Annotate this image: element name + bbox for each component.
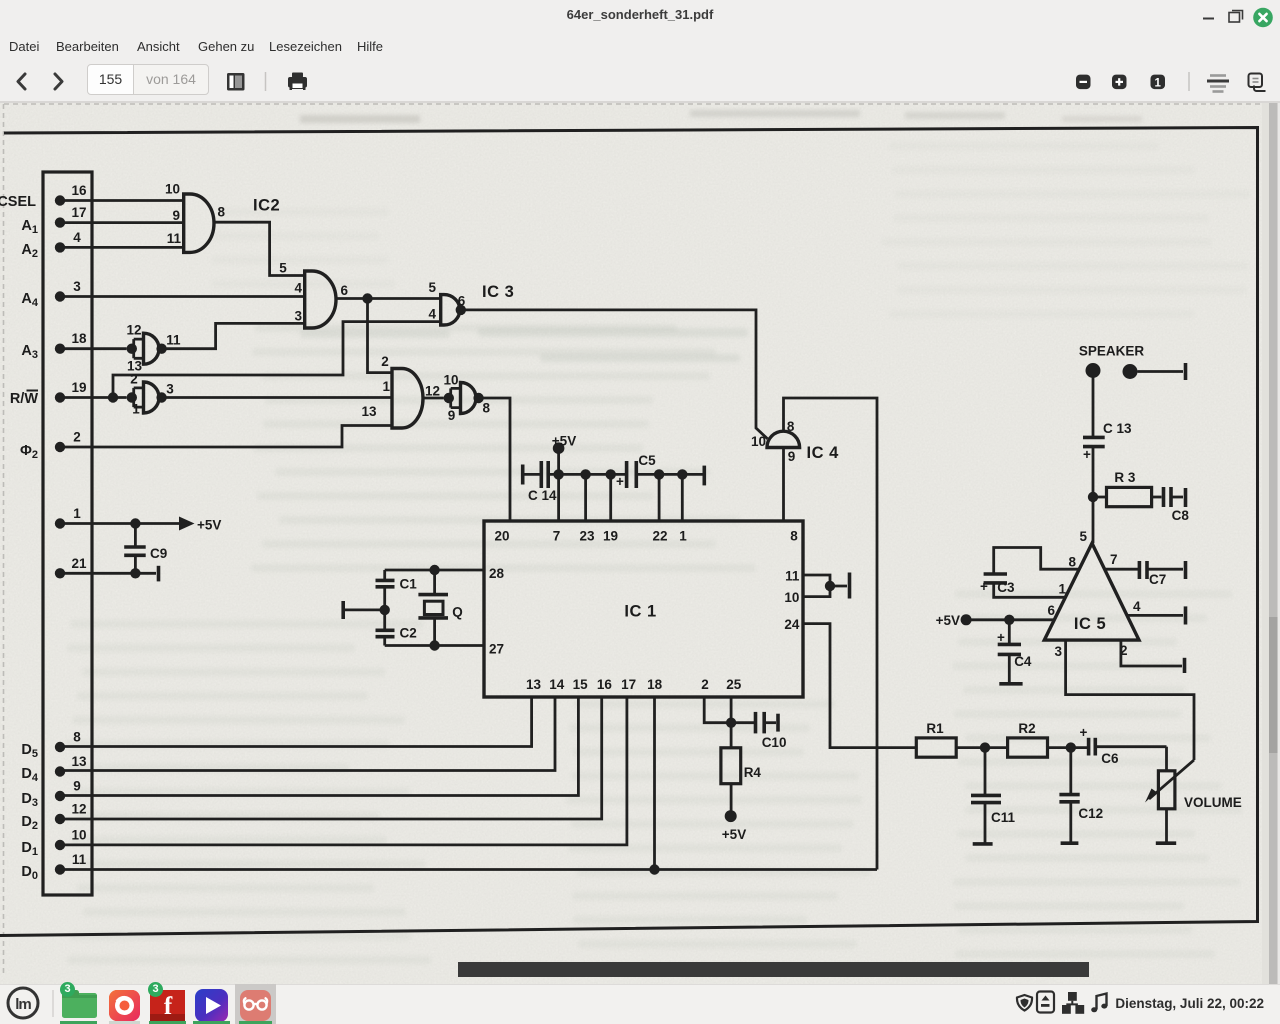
IC IC1 (28-pin sound chip) (484, 521, 803, 697)
AND gate IC3b (pins 2,1,13 -> 12) (361, 354, 440, 428)
svg-text:16: 16 (71, 183, 87, 198)
svg-text:11: 11 (72, 852, 87, 867)
terminal C8 (1184, 488, 1188, 507)
wire speaker A to C13 (1092, 377, 1095, 437)
svg-text:2: 2 (130, 372, 138, 387)
svg-text:9: 9 (73, 779, 81, 794)
firefox icon (109, 990, 140, 1021)
svg-text:C 13: C 13 (1103, 421, 1132, 436)
wire inverter IC4a pin 3 to gate IC3b pin 1 (162, 396, 392, 399)
svg-text:8: 8 (73, 730, 81, 745)
svg-text:5: 5 (279, 261, 287, 276)
node D0 (connector pin 11) (21, 852, 86, 882)
wire D2 to IC1 (60, 697, 602, 819)
svg-text:+: + (997, 630, 1005, 645)
svg-text:+5V: +5V (722, 827, 746, 842)
svg-text:7: 7 (1110, 552, 1118, 567)
gate IC4 (pins 10,9 -> 8) (751, 419, 839, 464)
power node +5V (R4) (722, 810, 746, 842)
terminal speaker B (1184, 363, 1188, 380)
capacitor C6 (1080, 725, 1119, 766)
svg-text:15: 15 (573, 677, 589, 692)
svg-text:IC 4: IC 4 (807, 444, 840, 462)
svg-text:28: 28 (489, 566, 505, 581)
wire IC5 pin 2 to terminal (1121, 640, 1182, 666)
resistor R3 (1093, 470, 1152, 507)
svg-text:C 14: C 14 (528, 488, 557, 503)
wire R1 to R2 (956, 746, 1007, 749)
node speaker terminal B (1123, 364, 1138, 379)
capacitor C5 (616, 453, 656, 489)
svg-text:12: 12 (126, 323, 141, 338)
capacitor C2 (376, 587, 417, 646)
wire IC1 pin 2 to pin 25 net (704, 697, 731, 723)
svg-text:C5: C5 (638, 453, 656, 468)
svg-text:1: 1 (132, 402, 140, 417)
svg-text:1: 1 (1058, 582, 1066, 597)
svg-text:19: 19 (71, 380, 86, 395)
wire R/W to inverter IC4a input (60, 396, 127, 399)
window title bar (0, 0, 1280, 30)
wire R2 to C6 (1048, 746, 1088, 749)
wire A3 to inverter IC3a input (60, 347, 127, 350)
junction rail/pin7 (553, 469, 563, 479)
svg-text:C4: C4 (1014, 654, 1032, 669)
junction rail/pin1 (677, 469, 687, 479)
junction pin18/D0 (649, 864, 659, 874)
svg-text:25: 25 (726, 677, 742, 692)
wire IC1 pin 27 to oscillator loop (385, 644, 484, 647)
bottom taskbar (0, 984, 1280, 1024)
svg-text:+: + (616, 474, 624, 489)
svg-text:3: 3 (1054, 644, 1062, 659)
svg-text:2: 2 (701, 677, 709, 692)
wire D0 net (to IC4 loop) (60, 868, 877, 871)
AND gate IC2 (pins 10,9,11 -> 8) (165, 182, 280, 253)
wire gate IC3b pin 12 to inverter IC4b input (423, 397, 444, 400)
svg-text:lm: lm (15, 996, 31, 1013)
svg-text:10: 10 (443, 372, 458, 387)
potentiometer VOLUME (1145, 747, 1242, 844)
svg-text:C7: C7 (1149, 572, 1166, 587)
svg-text:11: 11 (166, 333, 181, 348)
svg-text:6: 6 (341, 283, 349, 298)
terminal C7 (1184, 561, 1188, 579)
junction on net 6 (362, 293, 372, 303)
red f icon (150, 990, 185, 1021)
svg-text:+5V: +5V (936, 613, 960, 628)
node D3 (connector pin 9) (21, 779, 80, 810)
wire gate IC2b pin 6 to IC3 pin 5 (336, 297, 441, 300)
capacitor C14 (528, 461, 557, 503)
svg-text:10: 10 (784, 590, 799, 605)
svg-text:20: 20 (494, 529, 509, 544)
terminal right of C10 (776, 714, 780, 732)
svg-text:C1: C1 (400, 577, 418, 592)
svg-text:+: + (1083, 447, 1091, 462)
badges over taskbar (60, 982, 75, 997)
svg-text:9: 9 (788, 449, 796, 464)
svg-text:+5V: +5V (552, 434, 576, 449)
junction C13/R3 (1088, 492, 1098, 502)
svg-text:9: 9 (448, 408, 456, 423)
svg-text:R4: R4 (744, 765, 762, 780)
wire D4 to IC1 (60, 697, 555, 771)
AND gate IC2b (pins 5,4,3 -> 6) (279, 261, 348, 329)
svg-text:8: 8 (790, 529, 798, 544)
AND gate IC3 (pins 5,4 -> 6) (428, 280, 514, 325)
svg-text:C3: C3 (997, 580, 1015, 595)
power node +5V (IC1 pin 7) (552, 434, 576, 455)
wire IC1 pins 11,10 tied (803, 575, 847, 597)
svg-text:6: 6 (1047, 603, 1055, 618)
wire pin 1 to +5V arrow (60, 522, 179, 525)
svg-text:17: 17 (71, 205, 86, 220)
menu bar (0, 30, 1280, 61)
svg-text:9: 9 (172, 208, 180, 223)
capacitor C11 (971, 748, 1016, 844)
svg-text:8: 8 (218, 205, 226, 220)
svg-text:1: 1 (382, 379, 390, 394)
connector (bus edge connector) (43, 172, 92, 895)
decoupling rail wire (523, 473, 705, 476)
node D4 (connector pin 13) (21, 754, 87, 784)
wire inverter IC3a pin 11 to gate IC2b pin 3 (162, 323, 305, 348)
node D2 (connector pin 12) (21, 802, 86, 833)
resistor R4 (721, 748, 762, 784)
tray icons (1017, 992, 1054, 1013)
wire IC5 pin 7 to C7 (1105, 568, 1138, 571)
svg-text:C10: C10 (762, 735, 787, 750)
svg-text:3: 3 (73, 279, 81, 294)
svg-text:13: 13 (526, 677, 542, 692)
node A3 (connector pin 18) (21, 331, 87, 361)
capacitor C1 (376, 570, 418, 592)
junction R2/C12 (1066, 742, 1076, 752)
svg-text:5: 5 (428, 280, 436, 295)
junction on R/W net (108, 392, 118, 402)
wire IC1 pin 25 through R4 node (730, 697, 733, 748)
svg-text:3: 3 (294, 309, 302, 324)
op-amp IC5 (triangle) (1044, 529, 1141, 659)
svg-text:10: 10 (165, 182, 180, 197)
resistor R2 (1008, 721, 1048, 757)
power arrow +5V (179, 517, 221, 533)
svg-text:C6: C6 (1101, 751, 1119, 766)
svg-text:4: 4 (1133, 599, 1141, 614)
folder icon (62, 990, 97, 1018)
node CSEL (connector pin 16) (0, 183, 87, 210)
terminal ground stub left of C1/C2 (343, 601, 385, 619)
svg-text:1: 1 (1154, 77, 1161, 89)
wire rail to IC1 pin 19 (609, 474, 612, 521)
svg-text:12: 12 (71, 802, 86, 817)
junction pin2/pin25 (726, 718, 736, 728)
ground terminal C12 (1061, 841, 1079, 845)
node D1 (connector pin 10) (21, 828, 86, 859)
wire IC1 pin 28 to oscillator loop (385, 569, 484, 572)
capacitor C4 (997, 620, 1032, 684)
node PHI2 (connector pin 2) (20, 430, 81, 462)
junction rail/pin19 (606, 469, 616, 479)
wire IC1 pin 24 to R1 (803, 624, 916, 748)
wire +5V to IC5 pin 6 (966, 618, 1054, 621)
svg-text:13: 13 (71, 754, 87, 769)
svg-text:+: + (980, 579, 988, 594)
svg-text:f: f (164, 993, 173, 1020)
junction rail/pin23 (580, 469, 590, 479)
svg-text:IC 3: IC 3 (482, 283, 514, 301)
junction +5V/C4 (1004, 615, 1014, 625)
wire C6 to volume pot (1095, 745, 1166, 748)
svg-text:R2: R2 (1018, 721, 1035, 736)
svg-text:22: 22 (652, 529, 667, 544)
wire CSEL to IC2 pin 10 (60, 199, 184, 202)
svg-text:1: 1 (73, 506, 81, 521)
svg-text:7: 7 (553, 529, 561, 544)
capacitor C12 (1059, 748, 1103, 844)
power node +5V (IC5 pin 6) (936, 613, 972, 628)
svg-text:18: 18 (71, 331, 87, 346)
wire IC3 pin 6 to IC4 pin 10 (461, 310, 768, 439)
wire rail to IC1 pin 23 (584, 474, 587, 521)
svg-text:+: + (1080, 725, 1088, 740)
node R/W (connector pin 19) (10, 380, 87, 407)
wire A2 to IC2 pin 11 (60, 246, 184, 249)
resistor R1 (916, 721, 956, 757)
svg-text:21: 21 (71, 556, 87, 571)
node 21 (connector pin 21) (55, 556, 87, 579)
wire +5V to IC1 pin 7 (557, 448, 560, 521)
svg-text:11: 11 (167, 231, 182, 246)
wire net6 junction to gate IC3b pin 2 (368, 299, 393, 373)
wire IC2 pin 8 to gate IC2b pin 5 (214, 222, 305, 275)
wire R/W junction to IC3 pin 4 (113, 322, 441, 398)
svg-text:R 3: R 3 (1114, 470, 1136, 485)
node A1 (connector pin 17) (21, 205, 86, 236)
svg-text:13: 13 (361, 404, 377, 419)
svg-text:23: 23 (579, 529, 595, 544)
capacitor C7 (1139, 561, 1183, 587)
svg-text:27: 27 (489, 642, 504, 657)
node 1 (connector pin 1) (55, 506, 81, 529)
svg-text:18: 18 (647, 677, 663, 692)
junction R1/C11 (980, 742, 990, 752)
node A4 (connector pin 3) (21, 279, 81, 309)
junction pin21/C9 (130, 568, 140, 578)
ground terminal VOLUME (1156, 841, 1176, 845)
wire IC4 pin 9 to IC1 pin 8 (782, 448, 785, 522)
junction pins 11/10 (825, 581, 835, 591)
capacitor C10 (731, 712, 786, 750)
svg-text:+5V: +5V (197, 518, 221, 533)
active window highlight (235, 984, 276, 1024)
svg-text:Q: Q (452, 605, 463, 620)
wire rail to IC1 pin 1 (681, 474, 684, 521)
play icon (195, 989, 228, 1022)
toolbar (0, 61, 1280, 103)
svg-text:2: 2 (73, 430, 81, 445)
node speaker terminal A (1086, 363, 1101, 378)
svg-text:C9: C9 (150, 546, 167, 561)
terminal right of rail (702, 466, 706, 486)
svg-text:C8: C8 (1172, 508, 1190, 523)
wire pin 21 to terminal (60, 572, 156, 575)
svg-text:11: 11 (785, 569, 800, 584)
svg-text:C12: C12 (1078, 806, 1103, 821)
terminal left of C14 (521, 465, 525, 485)
svg-text:4: 4 (73, 230, 81, 245)
inverter gate IC3a (pins 12,13 -> 11) (126, 323, 181, 374)
svg-text:IC 5: IC 5 (1074, 615, 1106, 633)
wire D1 to IC1 (60, 697, 627, 845)
svg-text:8: 8 (1068, 555, 1076, 570)
capacitor C9 (124, 524, 167, 574)
goggles icon (240, 990, 271, 1021)
terminal IC5 pin 2 (1183, 658, 1187, 673)
svg-text:14: 14 (549, 677, 565, 692)
svg-text:IC2: IC2 (253, 197, 280, 215)
svg-text:CSEL: CSEL (0, 194, 36, 210)
terminal IC5 pin 4 (1184, 606, 1188, 624)
node D5 (connector pin 8) (21, 730, 81, 761)
svg-text:R/W: R/W (10, 391, 39, 407)
ground terminal C11 (973, 842, 993, 846)
svg-text:VOLUME: VOLUME (1184, 795, 1242, 810)
capacitor C3 feedback loop (980, 548, 1079, 598)
svg-text:4: 4 (428, 307, 436, 322)
svg-text:8: 8 (483, 401, 491, 416)
svg-text:R1: R1 (926, 721, 944, 736)
svg-text:2: 2 (381, 354, 389, 369)
junction C1/C2 (380, 605, 390, 615)
svg-text:IC 1: IC 1 (624, 603, 656, 621)
terminal pin 21 (157, 566, 161, 582)
svg-text:10: 10 (71, 828, 86, 843)
wire D5 to IC1 (60, 697, 532, 747)
terminal pins 11/10 (848, 573, 852, 599)
wire D3 to IC1 (60, 697, 578, 796)
mint menu button (8, 988, 38, 1018)
capacitor C13 (1083, 421, 1132, 462)
wire A4 to gate IC2b pin 4 (60, 295, 305, 298)
capacitor C8 (1152, 487, 1190, 523)
svg-text:19: 19 (603, 529, 618, 544)
svg-text:24: 24 (784, 617, 800, 632)
wire rail to IC1 pin 22 (658, 474, 661, 521)
svg-text:4: 4 (294, 281, 302, 296)
node IC3 output 6 (456, 305, 466, 315)
wire IC5 pin 3 to volume wiper (1066, 640, 1194, 760)
wire speaker B to terminal (1138, 370, 1184, 373)
wire C13 to IC5 pin 5 (1092, 447, 1095, 544)
inverter gate IC4b (pins 10,9 -> 8) (443, 372, 490, 423)
svg-text:5: 5 (1079, 529, 1087, 544)
wire inverter IC4b pin 8 to IC1 pin 20 (479, 398, 510, 521)
wire PHI2 to gate IC3b pin 13 (60, 426, 392, 448)
svg-text:16: 16 (597, 677, 613, 692)
wire IC1 pin 18 to D0 net (653, 697, 656, 870)
wire R4 to +5V (730, 784, 733, 811)
inverter gate IC4a (pins 2,1 -> 3) (127, 372, 175, 417)
svg-text:17: 17 (621, 677, 636, 692)
svg-text:C11: C11 (991, 810, 1016, 825)
junction Q bottom (429, 640, 439, 650)
svg-text:12: 12 (425, 384, 440, 399)
svg-text:SPEAKER: SPEAKER (1079, 344, 1145, 359)
junction rail/pin22 (654, 469, 664, 479)
svg-text:C2: C2 (400, 626, 417, 641)
svg-text:1: 1 (679, 529, 687, 544)
node A2 (connector pin 4) (21, 230, 81, 260)
svg-text:10: 10 (751, 434, 766, 449)
wire A1 to IC2 pin 9 (60, 221, 184, 224)
wire IC4 pin 8 loop to D0 net (784, 398, 878, 870)
wire IC5 pin 4 to terminal (1128, 614, 1184, 617)
ground terminal C4 (999, 682, 1022, 686)
svg-text:3: 3 (166, 382, 174, 397)
crystal Q (418, 570, 462, 646)
svg-text:8: 8 (787, 419, 795, 434)
junction pin1/C9 (130, 518, 140, 528)
junction Q top (429, 565, 439, 575)
